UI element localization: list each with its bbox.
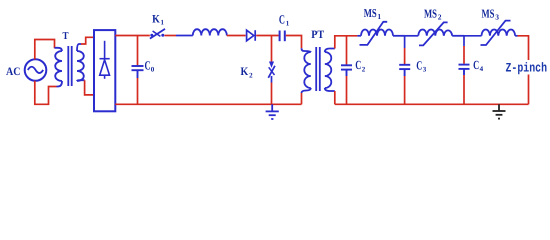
svg-text:Z-pinch: Z-pinch	[506, 61, 548, 76]
svg-text:4: 4	[480, 65, 484, 73]
wire K1 to inductor	[165, 35, 177, 37]
wire junction down to K2	[271, 36, 273, 63]
saturable inductor MS3	[481, 21, 516, 45]
wire AC bottom loop	[35, 81, 57, 105]
wire T secondary bottom to rectifier	[85, 80, 94, 95]
svg-text:1: 1	[377, 12, 381, 21]
ground (black)	[493, 104, 506, 118]
capacitor C4	[463, 36, 465, 46]
svg-text:0: 0	[151, 66, 155, 74]
svg-text:3: 3	[423, 66, 427, 74]
wire T secondary top to rectifier	[81, 37, 94, 44]
bottom rail from rectifier to PT	[115, 103, 301, 105]
capacitor C2	[346, 36, 348, 65]
wire MS3 to load	[515, 35, 517, 37]
svg-text:AC: AC	[6, 66, 20, 78]
wire C1 to PT primary	[286, 36, 302, 49]
svg-text:C: C	[355, 58, 361, 72]
svg-text:MS: MS	[482, 6, 495, 20]
top rail from rectifier to K1	[115, 35, 150, 37]
wire inductor to diode	[227, 35, 246, 37]
svg-text:C: C	[145, 59, 151, 73]
transformer PT	[302, 47, 335, 93]
svg-text:MS: MS	[424, 6, 437, 20]
wire PT secondary bottom to rail	[334, 91, 336, 104]
svg-text:K: K	[241, 66, 249, 78]
capacitor C3	[404, 36, 406, 48]
diode D	[247, 30, 256, 41]
switch K2	[268, 62, 275, 78]
saturable inductor MS2	[418, 22, 464, 45]
wire AC top to transformer T primary	[35, 40, 55, 60]
wire PT primary bottom to rail	[301, 93, 303, 104]
svg-text:2: 2	[438, 12, 442, 21]
svg-text:PT: PT	[311, 29, 324, 41]
wire to MS1	[357, 35, 361, 37]
capacitor C1	[280, 31, 285, 42]
svg-text:3: 3	[495, 12, 499, 21]
svg-text:1: 1	[161, 19, 165, 27]
svg-text:MS: MS	[364, 6, 377, 20]
svg-text:C: C	[473, 58, 479, 72]
wire load right edge lower	[528, 75, 530, 105]
wire to MS2	[405, 35, 419, 37]
svg-text:K: K	[152, 13, 160, 25]
svg-text:T: T	[63, 31, 69, 42]
rectifier diode symbol	[100, 41, 110, 79]
svg-text:C: C	[279, 12, 285, 26]
AC source	[25, 59, 47, 81]
svg-text:C: C	[416, 58, 422, 72]
wire diode to C1 with junction	[256, 35, 278, 37]
wire to MS3	[464, 35, 482, 37]
svg-text:2: 2	[249, 71, 253, 79]
svg-text:1: 1	[286, 19, 290, 27]
switch K1	[150, 29, 165, 39]
saturable inductor MS1	[360, 22, 405, 45]
wire PT secondary top up to MS rail	[335, 36, 358, 49]
rectifier bridge box	[94, 30, 115, 111]
bottom rail right section	[335, 103, 529, 105]
capacitor C0	[137, 36, 139, 66]
transformer T	[55, 44, 85, 87]
inductor L	[193, 29, 227, 35]
svg-text:2: 2	[362, 66, 366, 74]
ground (blue)	[266, 104, 279, 119]
